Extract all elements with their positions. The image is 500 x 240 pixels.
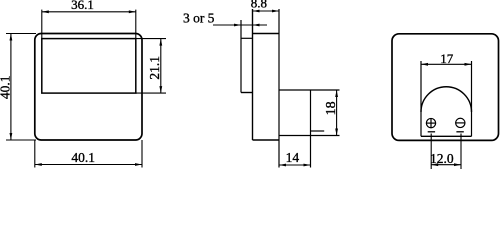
back view terminal dome bbox=[421, 61, 472, 136]
side view panel slab bbox=[241, 20, 253, 93]
svg-text:40.1: 40.1 bbox=[0, 75, 12, 99]
dimension 14 bbox=[279, 150, 311, 166]
svg-text:3 or 5: 3 or 5 bbox=[183, 10, 215, 25]
svg-text:12.0: 12.0 bbox=[430, 151, 454, 166]
side view terminal block bbox=[279, 90, 340, 168]
dimension 8.8 bbox=[251, 0, 279, 12]
dimension 21.1 right bbox=[136, 39, 166, 94]
back view plus terminal bbox=[426, 118, 436, 132]
svg-text:40.1: 40.1 bbox=[71, 150, 95, 165]
dimension 40.1 left bbox=[0, 34, 36, 141]
dimension 12.0 bbox=[430, 134, 461, 170]
svg-text:18: 18 bbox=[324, 101, 339, 115]
front view meter body bbox=[35, 34, 142, 141]
svg-text:36.1: 36.1 bbox=[71, 0, 94, 12]
dimension 40.1 bottom bbox=[35, 140, 142, 168]
dimension 18 bbox=[324, 90, 339, 136]
front view display window bbox=[42, 39, 136, 94]
svg-text:17: 17 bbox=[440, 51, 454, 66]
svg-text:14: 14 bbox=[286, 150, 300, 165]
svg-text:8.8: 8.8 bbox=[251, 0, 267, 10]
dimension 36.1 top bbox=[42, 0, 136, 39]
side view case outline bbox=[253, 9, 280, 168]
dimension 17 bbox=[421, 51, 472, 66]
back view minus terminal bbox=[455, 118, 465, 132]
svg-text:21.1: 21.1 bbox=[147, 56, 162, 80]
leader 3 or 5 bbox=[183, 10, 267, 26]
back view meter body bbox=[392, 34, 499, 141]
side view case front edge bbox=[252, 9, 254, 140]
